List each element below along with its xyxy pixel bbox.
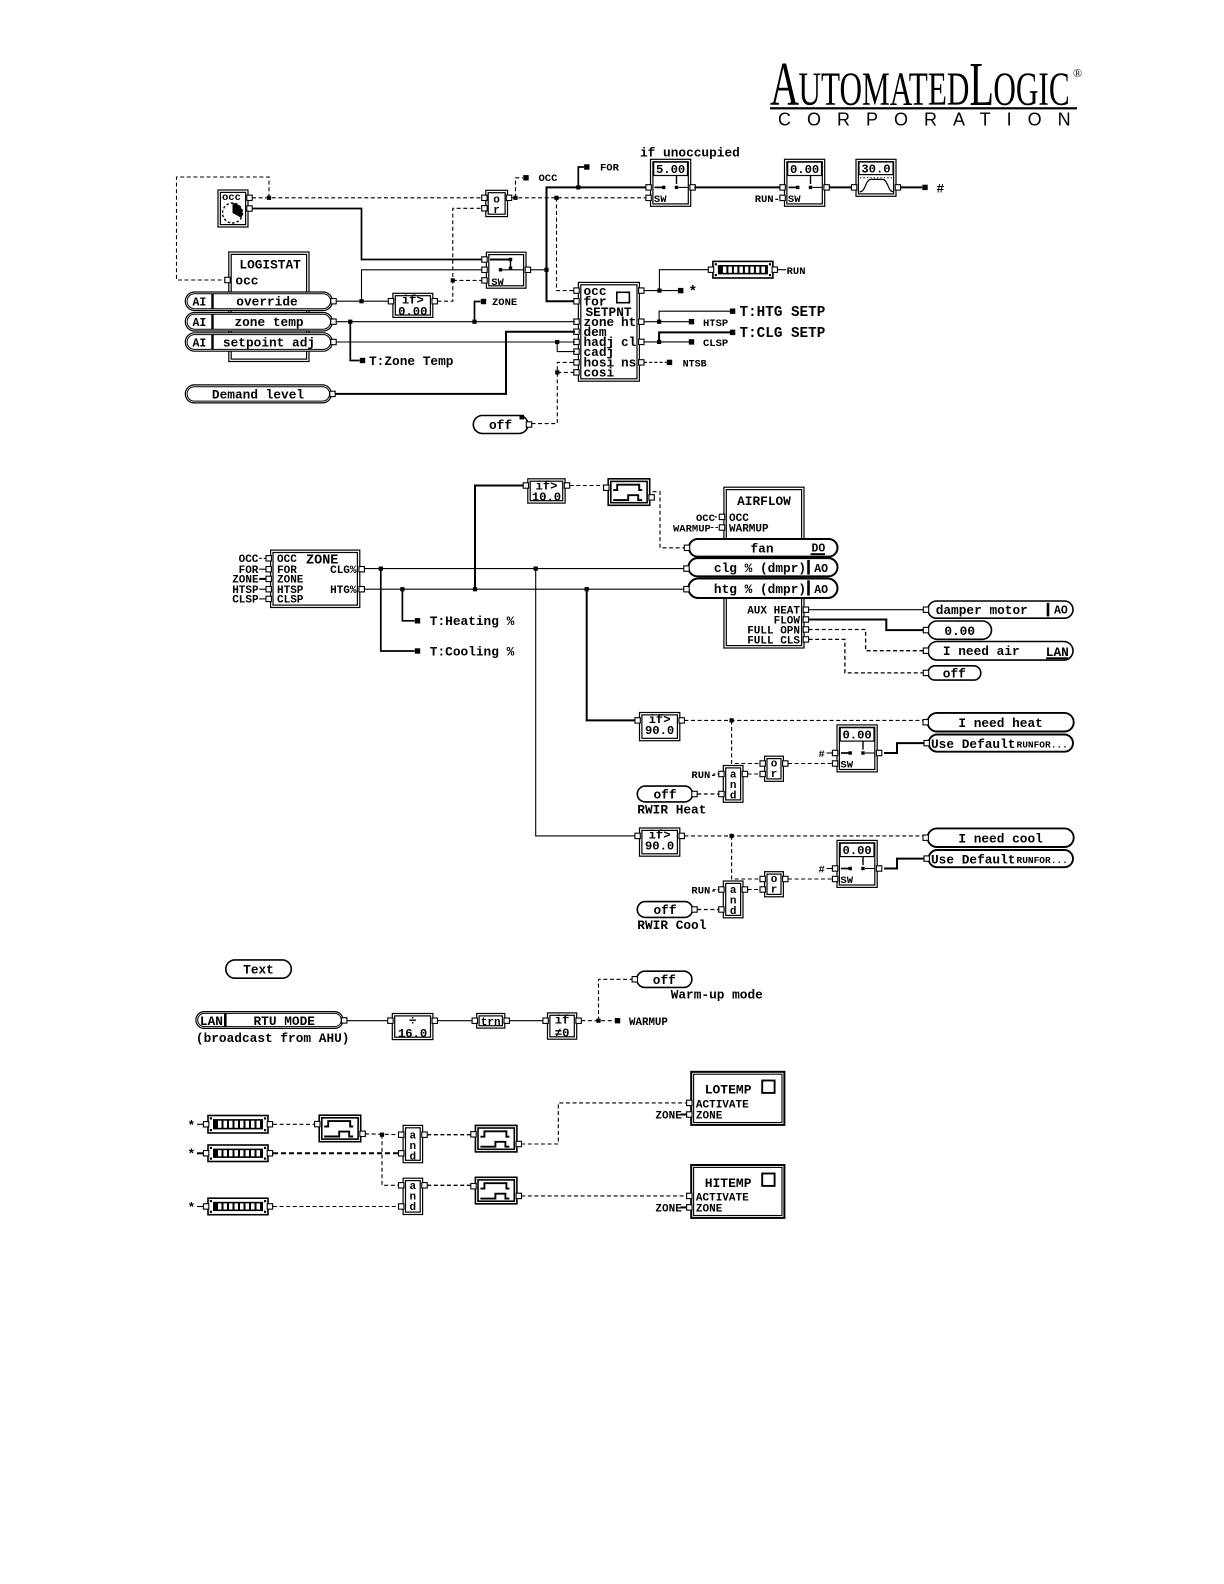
wire: RTU MODE to divide block	[347, 1020, 390, 1022]
node: junction cosi	[555, 370, 559, 374]
svg-text:LOGISTAT: LOGISTAT	[239, 258, 301, 273]
block SETPNT U5	[574, 282, 644, 381]
switch SW1 5.00	[646, 159, 695, 206]
svg-text:ZONE: ZONE	[696, 1111, 723, 1123]
or gate (Cool)	[760, 872, 788, 897]
label CLSP- into ZONE	[232, 595, 266, 607]
network oval Use Default RUNFOR (Cool)	[924, 850, 1073, 867]
comparator if>90.0 (Cool)	[635, 828, 685, 856]
svg-text:RWIR Cool: RWIR Cool	[637, 918, 706, 933]
block LOTEMP	[687, 1072, 785, 1125]
wire: pulse2 to LOTEMP ACTIVATE (dashed)	[521, 1103, 686, 1144]
label (broadcast from AHU)	[196, 1031, 350, 1046]
constant oval off (warm-up)	[632, 971, 692, 988]
svg-text:WARMUP: WARMUP	[673, 523, 711, 535]
node OCC marker	[516, 173, 559, 198]
svg-text:CLSP: CLSP	[232, 595, 259, 607]
wire: bar2 to and1 (thick dashed)	[273, 1152, 399, 1154]
node * into bar1	[188, 1118, 204, 1133]
indicator bar 2 (status)	[203, 1145, 272, 1162]
and gate (Heat)	[719, 766, 748, 803]
wire: FULL OPN to I need air (dashed)	[809, 630, 925, 651]
comparator U3 if>0.00	[388, 293, 437, 319]
or gate (Heat)	[760, 756, 788, 781]
svg-text:fan: fan	[750, 541, 773, 556]
svg-text:WARMUP: WARMUP	[729, 523, 769, 535]
network oval LAN RTU MODE	[196, 1012, 347, 1029]
network oval I need heat	[923, 713, 1074, 732]
svg-text:5.00: 5.00	[656, 163, 685, 177]
svg-text:ACTIVATE: ACTIVATE	[696, 1100, 749, 1112]
svg-text:Use Default: Use Default	[931, 852, 1015, 867]
wire: HTG% up to if>10	[475, 486, 526, 590]
node * terminal	[678, 285, 697, 301]
svg-text:off: off	[653, 903, 676, 918]
svg-text:*: *	[188, 1118, 196, 1133]
svg-text:off: off	[653, 787, 676, 802]
label RUN- into and gate (Cool)	[691, 885, 719, 897]
svg-text:HTG%: HTG%	[330, 585, 357, 597]
wire: override branch to SW0 input 2	[362, 270, 485, 301]
svg-text:ZONE: ZONE	[655, 1204, 682, 1216]
svg-text:Use Default: Use Default	[931, 737, 1015, 752]
input oval AI2 zone temp	[185, 313, 336, 332]
wire: bar3 to and2 (dashed)	[273, 1206, 399, 1208]
wire: SW output to Use Default oval (Heat)	[884, 743, 925, 753]
label RUN-- to SW2 select	[755, 194, 787, 206]
svg-text:if unoccupied: if unoccupied	[640, 146, 740, 161]
label HTSP- into ZONE	[232, 585, 266, 597]
wire: FULL CLS to off (dashed)	[809, 639, 925, 673]
svg-text:≠0: ≠0	[555, 1026, 570, 1040]
node WARMUP terminal	[615, 1017, 669, 1029]
label # into SW (Heat)	[819, 749, 834, 761]
label OCC-- into AIRFLOW	[696, 513, 719, 525]
svg-text:SW: SW	[840, 875, 853, 887]
wire: Demand level to SETPNT dem	[335, 332, 575, 394]
block ZONE U6	[266, 550, 364, 607]
node: junction pulse1 net	[380, 1133, 384, 1137]
node: junction on clock occ net	[267, 196, 271, 200]
node T:CLG SETP	[730, 326, 825, 342]
wire: ramp output to # terminal	[901, 186, 922, 188]
wire: CLG% down to if>90 cool	[536, 569, 638, 836]
svg-text:0.00: 0.00	[842, 729, 871, 743]
wire: cl to T:CLG SETP	[659, 332, 730, 342]
wire: off to and gate (Cool) (dashed)	[697, 909, 719, 911]
svg-text:LAN: LAN	[200, 1014, 223, 1029]
network oval I need cool	[923, 828, 1074, 847]
svg-text:WARMUP: WARMUP	[629, 1017, 668, 1029]
svg-text:#: #	[819, 749, 825, 761]
svg-text:d: d	[730, 906, 737, 918]
wire: ht to T:HTG SETP	[659, 311, 730, 322]
switch SW 0.00 (Cool)	[832, 840, 881, 887]
label OCC-- into ZONE	[239, 554, 267, 566]
svg-text:off: off	[943, 666, 966, 681]
node: junction OCC net 1	[513, 196, 517, 200]
wire: override to if-block U3	[336, 300, 391, 302]
node CLSP terminal	[689, 338, 728, 350]
wire: branch to cosi (dashed)	[557, 371, 575, 373]
svg-text:FULL CLS: FULL CLS	[747, 635, 800, 647]
node: junction cool compare branch	[534, 567, 538, 571]
node: junction cl	[657, 340, 661, 344]
svg-text:®: ®	[1073, 66, 1082, 80]
svg-text:RUNFOR...: RUNFOR...	[1017, 739, 1068, 750]
label # into SW (Cool)	[819, 865, 834, 877]
divide block 16.0	[388, 1013, 438, 1041]
constant oval off (Heat)	[637, 786, 697, 802]
wire: if>10 output to pulse U8 (dashed)	[570, 485, 607, 487]
label ZONE- into ZONE	[232, 575, 266, 587]
wire: SW1 output to SW2 input	[694, 186, 782, 188]
svg-text:ZONE: ZONE	[655, 1111, 682, 1123]
wire: SW2 output to ramp U4	[829, 186, 854, 188]
svg-text:d: d	[730, 790, 737, 802]
wire: bar1 to pulse1 (dashed)	[273, 1123, 317, 1125]
network oval I need air LAN	[923, 642, 1073, 661]
input oval AI3 setpoint adj	[185, 333, 336, 351]
svg-text:T:HTG SETP: T:HTG SETP	[740, 305, 826, 321]
wire: and1 to pulse2 (dashed)	[427, 1134, 473, 1136]
node: junction T:Cooling branch	[379, 567, 383, 571]
and gate 1 (lotemp)	[399, 1125, 428, 1163]
svg-text:*: *	[188, 1147, 196, 1162]
label ZONE- into HITEMP	[655, 1204, 686, 1216]
svg-text:trn: trn	[481, 1017, 501, 1029]
svg-text:Warm-up mode: Warm-up mode	[671, 988, 763, 1003]
svg-text:Demand level: Demand level	[212, 387, 304, 402]
input oval Demand level	[185, 385, 335, 403]
svg-text:*: *	[689, 285, 698, 301]
comparator U7 if>10.0	[523, 479, 570, 505]
logo AutomatedLogic Corporation	[770, 50, 1087, 129]
svg-text:*: *	[188, 1200, 196, 1215]
wire: main FOR run line to SW1 and down to SETPNT for	[547, 187, 650, 301]
wire: SETPNT ns output (dashed)	[644, 361, 667, 363]
svg-text:CLSP: CLSP	[703, 338, 728, 350]
wire: SW0 output to FOR vertical	[531, 269, 547, 271]
svg-text:OCC: OCC	[539, 173, 559, 185]
wire: U3 output dashed up to or gate U2 input 2	[437, 208, 484, 301]
switch SW 0.00 (Heat)	[832, 725, 881, 772]
wire: and output to or input (Heat) (dashed)	[748, 773, 761, 775]
block LOGISTAT	[225, 252, 309, 362]
constant oval off (full cls)	[923, 666, 981, 682]
or gate U2	[482, 190, 512, 217]
node T:Cooling marker	[381, 569, 515, 660]
node: junction WARMUP net	[596, 1019, 600, 1023]
svg-text:0.00: 0.00	[944, 624, 975, 639]
svg-text:I need cool: I need cool	[958, 831, 1043, 846]
ramp block U4 30.0	[851, 159, 900, 196]
node: junction ht	[657, 320, 661, 324]
svg-text:10.0: 10.0	[532, 490, 561, 504]
wire: trn to if-not-zero block	[509, 1020, 545, 1022]
wire: clock occ output (dashed) to or gate U2	[252, 197, 484, 199]
svg-text:AO: AO	[814, 563, 828, 576]
wire: Heat request down to or gate (dashed)	[732, 720, 763, 763]
svg-text:RWIR Heat: RWIR Heat	[637, 803, 706, 818]
wire: pulse1 output to and gates (dashed)	[365, 1133, 399, 1136]
svg-text:I need heat: I need heat	[958, 716, 1042, 731]
node: junction FOR marker	[576, 185, 580, 189]
node: junction warm-up compare branch	[473, 587, 477, 591]
svg-text:#: #	[819, 865, 825, 877]
svg-text:RUNFOR...: RUNFOR...	[1017, 855, 1068, 866]
output oval htg % (dmpr) AO	[684, 579, 838, 599]
svg-text:T:Cooling %: T:Cooling %	[430, 644, 515, 659]
svg-text:RUN-: RUN-	[691, 885, 716, 897]
node T:Heating marker	[402, 589, 514, 629]
wire: setpoint adj to SETPNT hadj	[336, 341, 575, 343]
svg-text:r: r	[493, 205, 500, 217]
node ZONE marker	[475, 297, 518, 322]
svg-text:0.00: 0.00	[790, 163, 819, 177]
node: junction T:Heating branch	[400, 587, 404, 591]
pulse/delay block U8	[604, 479, 655, 506]
svg-text:FOR: FOR	[600, 163, 620, 175]
svg-text:AIRFLOW: AIRFLOW	[737, 494, 791, 509]
comparator if>90.0 (Heat)	[635, 713, 685, 741]
svg-text:off: off	[653, 973, 676, 988]
wire: HTG% down to if>90 heat	[587, 589, 638, 720]
wire: Cool request down to or gate (dashed)	[732, 836, 763, 879]
svg-text:I need air: I need air	[943, 644, 1020, 659]
output oval damper motor AO	[923, 601, 1073, 618]
svg-text:SW: SW	[840, 760, 853, 772]
svg-text:AI: AI	[193, 317, 207, 330]
wire: SETPNT occ output to * terminal	[644, 290, 678, 292]
node: junction hadj/cadj	[555, 340, 559, 344]
svg-text:htg % (dmpr): htg % (dmpr)	[714, 582, 806, 597]
wire: OCC net down to SETPNT occ input (dashed)	[557, 198, 576, 291]
svg-text:CLG%: CLG%	[330, 565, 357, 577]
wire: SETPNT ht output	[644, 321, 689, 323]
wire: pulse3 to HITEMP ACTIVATE (dashed)	[521, 1195, 686, 1197]
wire: RUN indicator output	[778, 269, 787, 271]
svg-text:damper motor: damper motor	[936, 603, 1028, 618]
value oval 0.00 (flow)	[923, 621, 991, 639]
node NTSB terminal	[667, 359, 707, 370]
wire: or output to SW select (Cool) (dashed)	[788, 878, 835, 880]
wire: SETPNT occ out up to RUN indicator	[659, 270, 708, 291]
svg-text:30.0: 30.0	[861, 163, 890, 177]
svg-text:NTSB: NTSB	[683, 359, 707, 370]
svg-text:Text: Text	[243, 963, 274, 978]
svg-text:d: d	[409, 1152, 416, 1164]
svg-text:r: r	[771, 885, 778, 897]
pulse/delay block 1	[315, 1115, 366, 1142]
and gate 2 (hitemp)	[399, 1178, 428, 1214]
node HTSP terminal	[689, 318, 728, 330]
wire: and output to or input (Cool) (dashed)	[748, 889, 761, 891]
node T:Zone Temp marker	[350, 322, 453, 369]
output oval fan DO	[684, 539, 837, 557]
node: junction Cool request	[730, 834, 734, 838]
svg-text:RUN-: RUN-	[691, 770, 716, 782]
switch block SW0	[482, 252, 531, 289]
timeclock block occ	[218, 190, 252, 227]
wire: if>90 output to I need Cool oval (dashed)	[684, 835, 925, 837]
svg-text:zone temp: zone temp	[234, 315, 303, 330]
and gate (Cool)	[719, 881, 748, 918]
node FOR marker	[578, 163, 619, 188]
wire: branch to SW0 select input (dashed)	[453, 279, 484, 281]
svg-text:SW: SW	[654, 194, 667, 206]
wire: AUX HEAT to damper motor oval	[809, 609, 925, 611]
svg-text:HTSP: HTSP	[703, 318, 728, 330]
svg-text:90.0: 90.0	[645, 840, 674, 854]
label: if unoccupied	[640, 146, 740, 161]
svg-text:16.0: 16.0	[398, 1027, 427, 1041]
svg-text:ZONE: ZONE	[492, 297, 517, 309]
svg-text:AO: AO	[814, 584, 828, 597]
svg-text:T:CLG SETP: T:CLG SETP	[740, 326, 826, 342]
wire: ZONE CLG% output to clg oval	[364, 568, 687, 570]
input oval AI1 override	[185, 292, 336, 311]
wire: if>90 output to I need Heat oval (dashed)	[684, 719, 925, 721]
svg-text:SW: SW	[491, 277, 504, 289]
wire: clock occ net branch to LOGISTAT occ (dashed)	[177, 177, 270, 280]
node: junction override net	[359, 299, 363, 303]
wire: SETPNT cl output	[644, 341, 689, 343]
indicator bar 3 (status)	[203, 1198, 272, 1215]
truncate block trn	[472, 1014, 509, 1030]
node: junction ZONE marker	[472, 320, 476, 324]
node T:HTG SETP	[730, 305, 825, 321]
network oval Use Default RUNFOR (Heat)	[924, 735, 1073, 752]
indicator bar 1 (status)	[203, 1116, 272, 1134]
wire: or output to SW select (Heat) (dashed)	[788, 763, 835, 765]
wire: if!=0 output (dashed) to WARMUP	[581, 1020, 614, 1022]
output oval clg % (dmpr) AO	[684, 558, 838, 576]
svg-text:cl: cl	[621, 335, 637, 350]
block AIRFLOW U9	[719, 487, 808, 648]
node: junction SW0 output on FOR line	[544, 268, 548, 272]
wire: branch to cadj	[557, 342, 575, 352]
svg-text:ns: ns	[621, 355, 636, 370]
block HITEMP	[687, 1165, 785, 1218]
svg-text:override: override	[236, 295, 298, 310]
svg-text:AI: AI	[193, 297, 207, 310]
switch SW2 0.00	[780, 159, 829, 206]
svg-text:setpoint adj: setpoint adj	[223, 336, 315, 351]
svg-text:AI: AI	[193, 338, 207, 351]
label WARMUP-- into AIRFLOW	[673, 523, 719, 535]
node: junction Heat request	[730, 718, 734, 722]
wire: divide to trn block	[438, 1020, 475, 1022]
node: junction on U3 output net	[451, 278, 455, 282]
svg-text:90.0: 90.0	[645, 724, 674, 738]
label RUN- into and gate (Heat)	[691, 770, 719, 782]
wire: FLOW to 0.00 oval	[809, 620, 925, 631]
svg-text:occ: occ	[235, 273, 258, 288]
wire: pulse1 net down to and2 (dashed)	[382, 1135, 399, 1186]
svg-text:ZONE: ZONE	[696, 1204, 723, 1216]
wire: pulse U8 to fan oval (dashed)	[653, 492, 687, 548]
node: junction T:Zone branch	[348, 320, 352, 324]
wire: WARMUP net up to off oval (dashed)	[599, 979, 635, 1020]
svg-text:SW: SW	[788, 194, 801, 206]
label RUN	[787, 266, 806, 278]
label FOR- into ZONE	[239, 565, 267, 577]
wire: clock schedule output to switch SW0 input 1	[252, 209, 484, 260]
label RWIR Cool	[637, 918, 706, 933]
svg-text:ht: ht	[621, 315, 636, 330]
svg-text:AO: AO	[1054, 605, 1068, 618]
svg-text:CLSP: CLSP	[277, 595, 304, 607]
svg-text:#: #	[937, 181, 945, 196]
wire: off to and gate (Heat) (dashed)	[697, 793, 719, 795]
svg-text:T:Zone Temp: T:Zone Temp	[369, 354, 454, 369]
wire: zone temp to SETPNT zone	[336, 321, 575, 323]
constant oval off (to SETPNT)	[473, 415, 531, 434]
svg-text:(broadcast from AHU): (broadcast from AHU)	[196, 1031, 350, 1046]
svg-text:0.00: 0.00	[842, 844, 871, 858]
svg-text:r: r	[771, 769, 778, 781]
wire: SW output to Use Default oval (Cool)	[884, 859, 925, 869]
node: junction heat compare branch	[585, 587, 589, 591]
node # terminal	[922, 181, 944, 196]
comment oval Text	[226, 960, 291, 978]
comparator if not 0	[543, 1013, 581, 1041]
svg-text:LOTEMP: LOTEMP	[705, 1082, 752, 1097]
node * into bar3	[188, 1200, 204, 1215]
svg-text:÷: ÷	[409, 1013, 417, 1028]
svg-text:0.00: 0.00	[398, 305, 427, 319]
node: junction occ-out	[657, 289, 661, 293]
svg-text:RTU MODE: RTU MODE	[254, 1014, 316, 1029]
svg-text:d: d	[409, 1202, 416, 1214]
pulse/delay block 3	[471, 1177, 522, 1204]
svg-text:RUN: RUN	[787, 266, 806, 278]
label Warm-up mode	[671, 988, 763, 1003]
svg-text:CORPORATION: CORPORATION	[778, 110, 1087, 130]
wire: or gate U2 output (dashed OCC net) to SW1 select	[512, 197, 649, 199]
label ZONE- into LOTEMP	[655, 1111, 686, 1123]
wire: ZONE HTG% output to htg oval	[364, 588, 687, 590]
label RWIR Heat	[637, 803, 706, 818]
svg-text:HITEMP: HITEMP	[705, 1176, 752, 1191]
wire: and2 to pulse3 (dashed)	[427, 1184, 473, 1186]
node * into bar2	[188, 1147, 204, 1162]
svg-text:T:Heating %: T:Heating %	[430, 614, 515, 629]
svg-text:off: off	[489, 418, 512, 433]
svg-text:clg % (dmpr): clg % (dmpr)	[714, 561, 806, 576]
node: junction OCC net 2 (to SETPNT occ)	[554, 196, 558, 200]
svg-text:ACTIVATE: ACTIVATE	[696, 1192, 749, 1204]
wire: off oval to SETPNT cosi and hosi (dashed)	[532, 362, 576, 423]
pulse/delay block 2	[471, 1125, 522, 1152]
constant oval off (Cool)	[637, 902, 697, 918]
svg-text:cosi: cosi	[584, 366, 615, 381]
indicator bar RUN	[708, 261, 777, 278]
